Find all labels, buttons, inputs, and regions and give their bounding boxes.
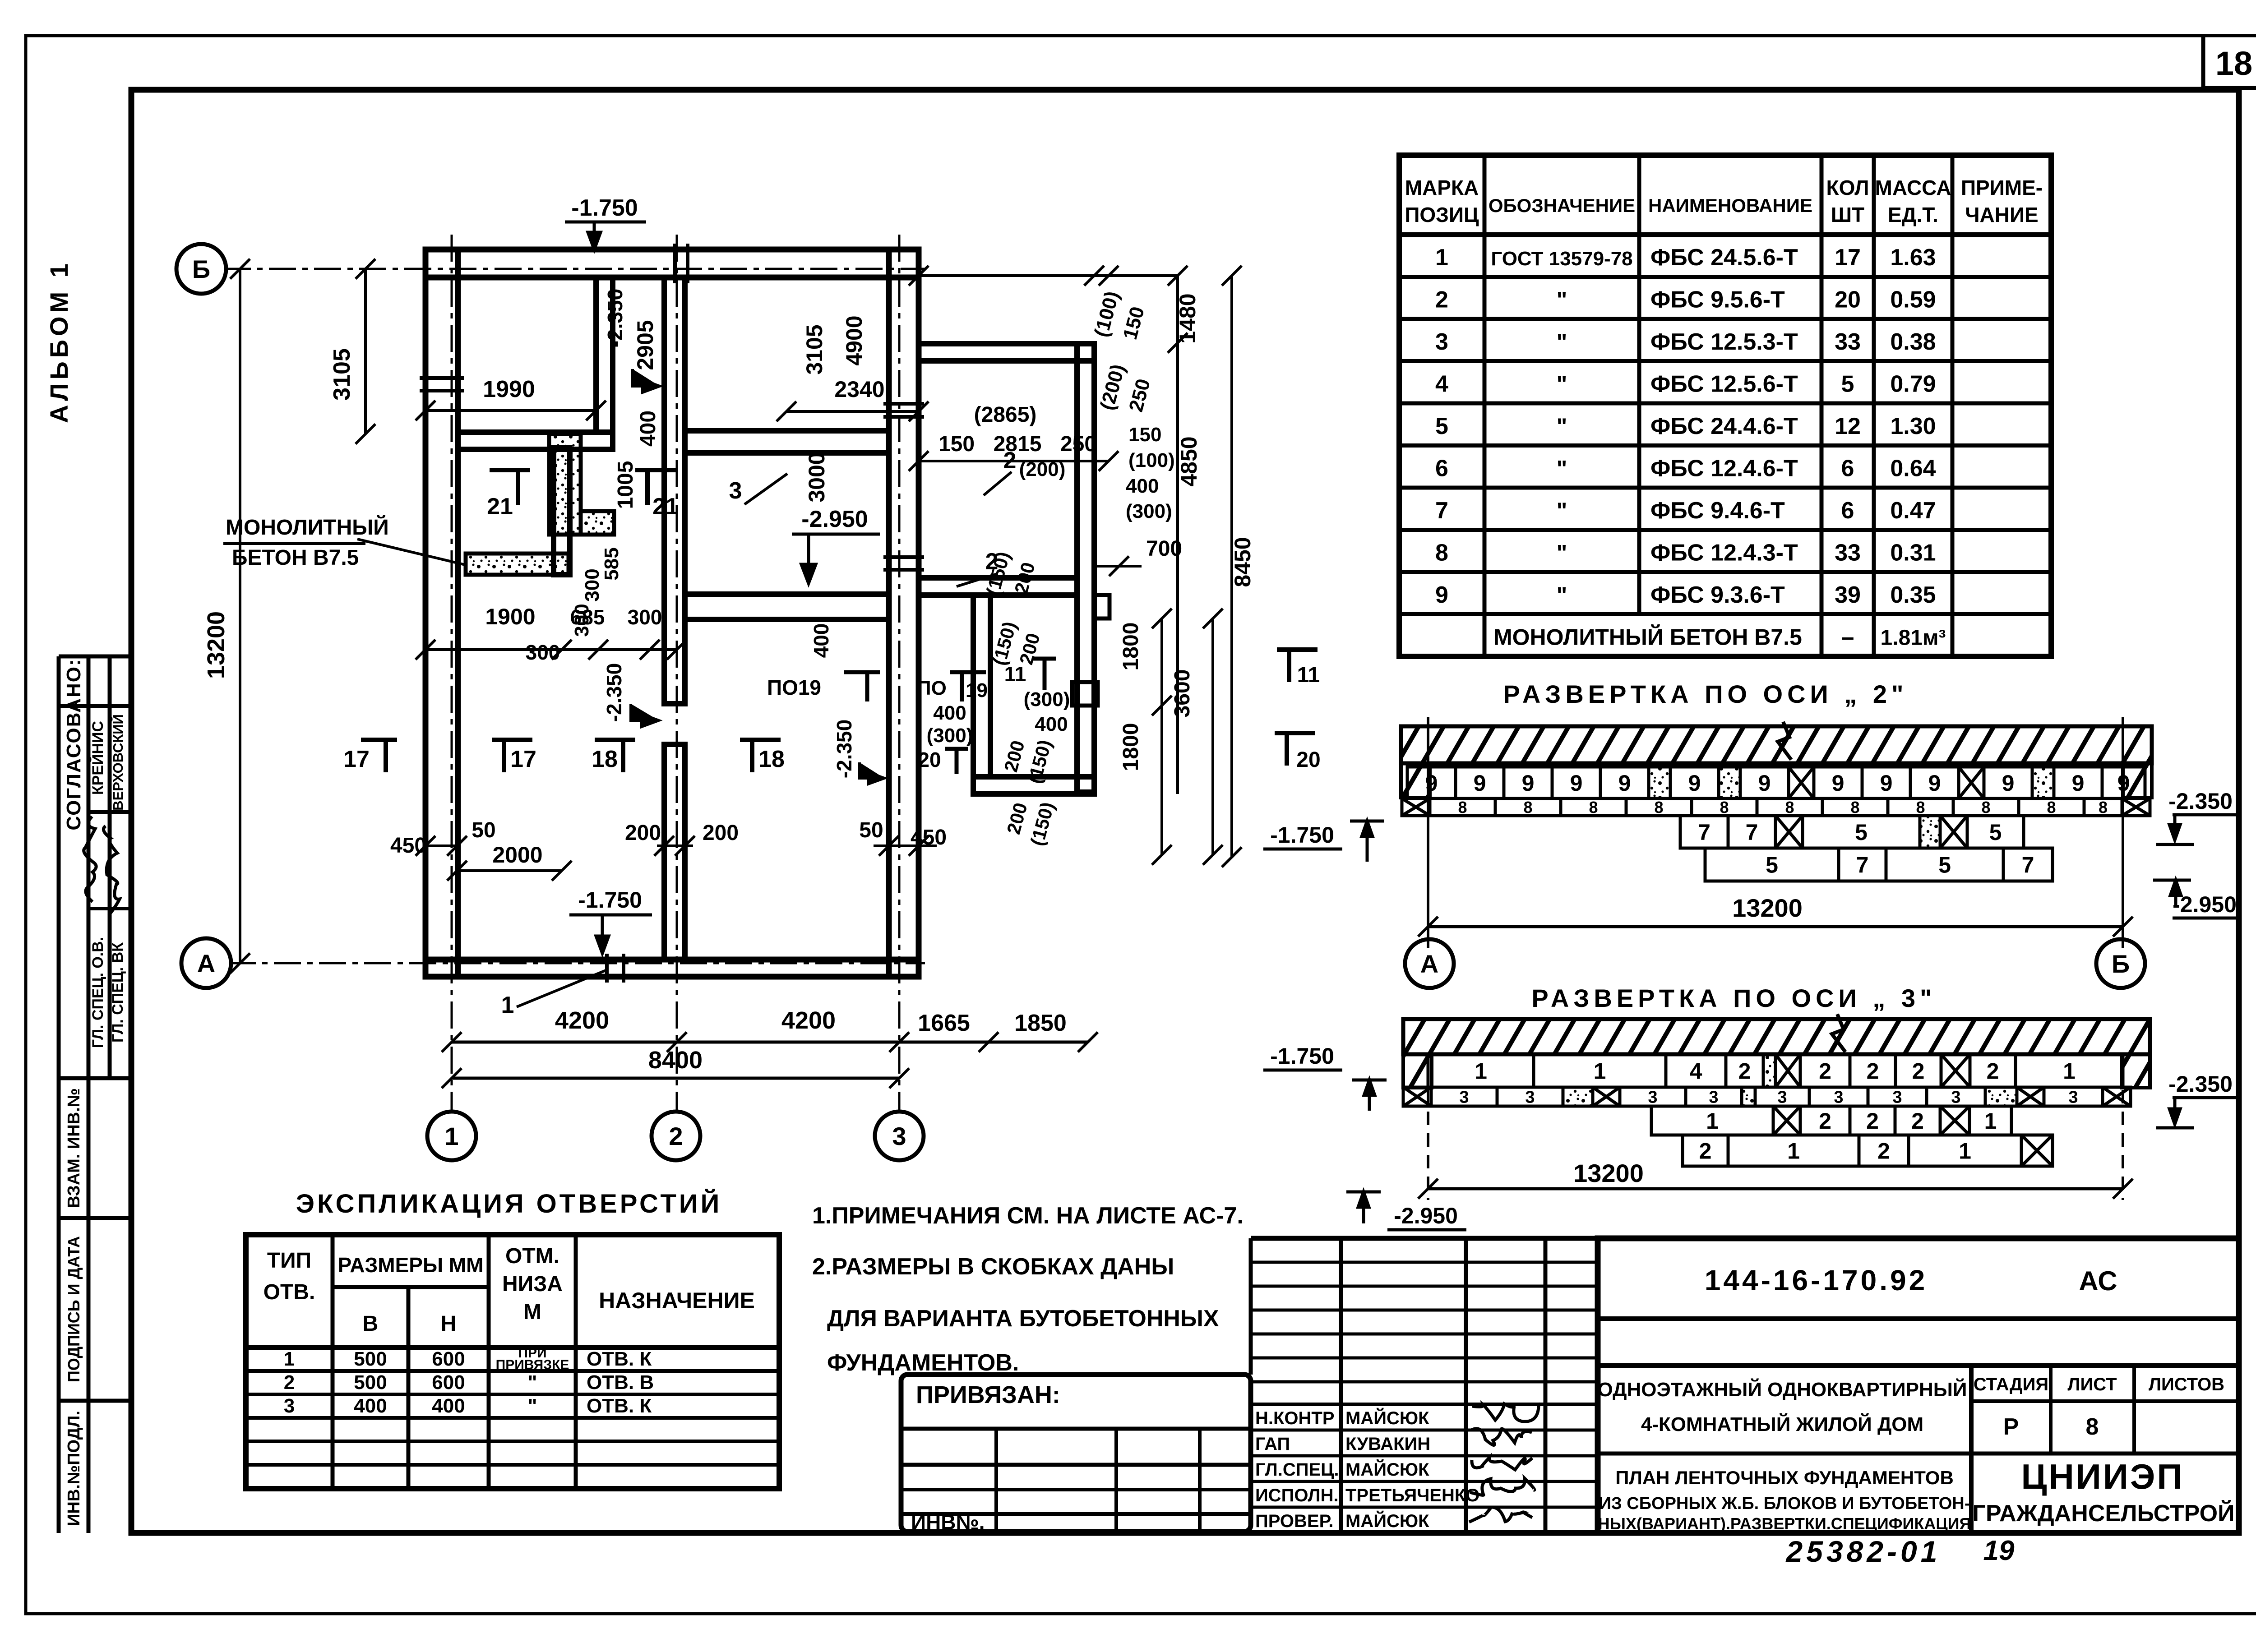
svg-text:9: 9 [1688,771,1701,796]
plan wall middle horizontal 2 [685,594,889,619]
svg-text:6: 6 [1841,498,1854,524]
svg-text:ВЕРХОВСКИЙ: ВЕРХОВСКИЙ [110,714,126,811]
dimension line 1800/3600 [1160,618,1163,855]
svg-text:(200): (200) [1019,458,1066,480]
svg-text:8: 8 [1654,798,1663,817]
svg-text:1665: 1665 [918,1010,970,1036]
svg-text:11: 11 [1004,662,1026,686]
razvertka3 level mark -2.950 bottom left [1346,1192,1381,1223]
svg-text:3105: 3105 [329,348,355,401]
svg-text:8: 8 [1458,798,1467,817]
svg-text:400: 400 [1035,713,1068,735]
svg-text:17: 17 [510,746,536,772]
svg-text:400: 400 [432,1395,465,1417]
plan stipple monolithic A [549,434,581,535]
svg-text:7: 7 [1746,820,1758,845]
section mark 18 left [595,740,635,772]
svg-text:3: 3 [1834,1088,1843,1107]
svg-text:9: 9 [1570,771,1583,796]
svg-text:400: 400 [809,623,833,658]
svg-text:8: 8 [2047,798,2056,817]
svg-text:3600: 3600 [1170,669,1194,718]
svg-text:А: А [197,949,215,978]
svg-text:500: 500 [354,1348,387,1370]
svg-text:600: 600 [432,1348,465,1370]
svg-text:1900: 1900 [485,604,535,629]
axis line A horizontal [229,962,925,964]
svg-text:БЕТОН В7.5: БЕТОН В7.5 [232,546,359,570]
svg-text:ГЛ. СПЕЦ. ВК: ГЛ. СПЕЦ. ВК [109,942,126,1043]
svg-text:2905: 2905 [633,320,658,370]
plan outer wall bottom [425,960,919,977]
svg-text:ЛИСТ: ЛИСТ [2067,1375,2117,1394]
svg-text:ГРАЖДАНСЕЛЬСТРОЙ: ГРАЖДАНСЕЛЬСТРОЙ [1973,1500,2235,1527]
annex interior wall horizontal [919,578,1077,595]
svg-text:ДЛЯ ВАРИАНТА БУТОБЕТОННЫХ: ДЛЯ ВАРИАНТА БУТОБЕТОННЫХ [827,1306,1219,1332]
axis line B horizontal [224,268,925,270]
svg-text:": " [1557,372,1567,397]
svg-text:": " [1557,329,1567,355]
bottom dim row 450 50 etc [425,844,457,847]
razvertka2 axis line A [1427,717,1429,948]
svg-text:-2.950: -2.950 [2173,892,2237,917]
svg-text:3: 3 [1892,1088,1902,1107]
svg-text:1990: 1990 [483,376,535,402]
svg-text:ТИП: ТИП [267,1249,311,1273]
svg-text:ПЛАН ЛЕНТОЧНЫХ ФУНДАМЕНТОВ: ПЛАН ЛЕНТОЧНЫХ ФУНДАМЕНТОВ [1615,1467,1954,1488]
svg-text:1: 1 [1787,1139,1800,1164]
svg-text:1800: 1800 [1119,723,1143,771]
svg-text:-2.950: -2.950 [1394,1203,1458,1228]
svg-text:МОНОЛИТНЫЙ БЕТОН В7.5: МОНОЛИТНЫЙ БЕТОН В7.5 [1493,624,1802,650]
svg-text:9: 9 [1522,771,1535,796]
svg-text:7: 7 [2022,853,2034,878]
svg-text:8: 8 [1916,798,1925,817]
svg-text:ОТМ.: ОТМ. [505,1244,559,1268]
svg-text:ЧАНИЕ: ЧАНИЕ [1965,203,2039,226]
plan interior wall axis2 lower [664,744,685,960]
svg-text:18: 18 [592,746,618,772]
axis circle 3 plan [875,1112,924,1160]
svg-text:ПО: ПО [917,677,947,699]
svg-text:(300): (300) [1126,500,1172,522]
svg-text:8: 8 [1981,798,1990,817]
razvertka2 level mark -2.950 [2153,880,2191,907]
svg-text:НАЗНАЧЕНИЕ: НАЗНАЧЕНИЕ [599,1288,755,1313]
annex interior wall vertical [973,595,990,777]
svg-text:ИНВ.№ПОДЛ.: ИНВ.№ПОДЛ. [65,1411,83,1526]
svg-text:РАЗМЕРЫ ММ: РАЗМЕРЫ ММ [338,1253,484,1277]
annex right wall step [1094,595,1110,618]
svg-text:3: 3 [2068,1088,2078,1107]
privyazan grid [901,1427,1251,1431]
svg-text:1800: 1800 [1119,623,1143,671]
svg-text:-2.350: -2.350 [603,289,627,347]
svg-text:НАИМЕНОВАНИЕ: НАИМЕНОВАНИЕ [1648,195,1812,216]
title block centre grid [1249,1238,1253,1375]
svg-text:33: 33 [1835,329,1861,355]
svg-text:ФБС 9.4.6-Т: ФБС 9.4.6-Т [1650,498,1785,524]
svg-text:2000: 2000 [492,842,542,868]
plan outer wall left [425,249,458,977]
plan wall middle horizontal 1 [685,431,889,453]
svg-text:Н: Н [441,1312,457,1336]
svg-text:200: 200 [703,821,739,845]
explication table grid [246,1235,779,1489]
svg-text:5: 5 [1766,853,1778,878]
svg-text:4: 4 [1435,371,1448,397]
svg-text:ПРИВЯЗАН:: ПРИВЯЗАН: [916,1381,1060,1408]
svg-text:ПРОВЕР.: ПРОВЕР. [1255,1511,1333,1531]
svg-text:2: 2 [1911,1108,1924,1134]
svg-text:8: 8 [2086,1414,2099,1440]
svg-text:3105: 3105 [802,324,827,374]
svg-text:2: 2 [1738,1059,1751,1084]
svg-text:1.ПРИМЕЧАНИЯ СМ. НА ЛИСТЕ АС-7: 1.ПРИМЕЧАНИЯ СМ. НА ЛИСТЕ АС-7. [812,1203,1244,1229]
section mark 17 in room [492,740,532,772]
plan wall right of top-left room [596,277,613,432]
svg-text:13200: 13200 [203,611,230,679]
svg-text:9: 9 [1832,771,1845,796]
svg-text:4850: 4850 [1176,436,1202,486]
opening marks top wall axis2 [673,244,677,283]
svg-text:ШТ: ШТ [1831,203,1864,226]
sheet title box [1598,1452,1971,1456]
svg-text:2815: 2815 [994,432,1042,456]
svg-text:1: 1 [501,992,514,1018]
razvertka3 left hatch end block [1403,1054,1432,1088]
svg-text:600: 600 [432,1371,465,1394]
svg-text:685: 685 [570,605,605,629]
sidebar signature 2 [103,826,120,915]
svg-text:9: 9 [1880,771,1893,796]
svg-text:ПО19: ПО19 [767,676,821,699]
svg-text:39: 39 [1835,582,1861,608]
svg-text:ВЗАМ. ИНВ.№: ВЗАМ. ИНВ.№ [65,1088,83,1208]
svg-text:19: 19 [966,679,988,701]
svg-text:АС: АС [2079,1266,2117,1296]
svg-text:ГЛ.СПЕЦ.: ГЛ.СПЕЦ. [1255,1460,1339,1480]
svg-text:3: 3 [1435,329,1448,355]
sidebar stamp table grid [57,656,61,1533]
svg-text:": " [1557,498,1567,523]
sidebar signature 1 [84,817,96,902]
svg-text:Н.КОНТР: Н.КОНТР [1255,1408,1335,1428]
razvertka2 left hatch end block [1401,763,1430,798]
svg-text:9: 9 [2002,771,2015,796]
svg-text:300: 300 [628,605,662,629]
svg-text:144-16-170.92: 144-16-170.92 [1705,1264,1928,1297]
svg-text:17: 17 [343,746,370,772]
svg-text:-2.350: -2.350 [832,720,856,778]
svg-text:9: 9 [1928,771,1941,796]
dimension 1990 [425,409,596,412]
razvertka2 block row 5-7 bottom [1705,848,1839,881]
svg-text:1: 1 [444,1122,458,1150]
annex bottom wall [973,777,1094,794]
svg-text:ЭКСПЛИКАЦИЯ ОТВЕРСТИЙ: ЭКСПЛИКАЦИЯ ОТВЕРСТИЙ [296,1189,722,1218]
svg-text:8: 8 [1720,798,1729,817]
svg-text:0.79: 0.79 [1890,371,1936,397]
svg-text:3: 3 [1777,1088,1787,1107]
svg-text:": " [1557,456,1567,481]
svg-text:2340: 2340 [834,377,884,402]
opening marks axis3 wall lower [883,555,924,559]
svg-text:6: 6 [1435,456,1448,482]
bottom dimension row 4200 4200 1665 1850 [452,1041,1088,1044]
svg-text:(100): (100) [1128,449,1175,471]
svg-text:500: 500 [354,1371,387,1394]
annex bottom-right step [1072,682,1098,706]
svg-text:0.59: 0.59 [1890,287,1936,313]
svg-text:5: 5 [1435,413,1448,439]
razvertka3 hatched ground strip [1403,1019,2150,1054]
svg-text:КОЛ: КОЛ [1826,176,1869,199]
svg-text:13200: 13200 [1573,1159,1644,1187]
razvertka2 break mark [1778,722,1791,760]
svg-text:7: 7 [1698,820,1710,845]
razvertka3 right hatch end block [2122,1054,2150,1088]
svg-text:3: 3 [892,1122,906,1150]
svg-text:9: 9 [1474,771,1486,796]
svg-text:1850: 1850 [1014,1010,1067,1036]
svg-text:1.30: 1.30 [1890,413,1936,439]
svg-text:2: 2 [1699,1139,1712,1164]
svg-text:ГЛ. СПЕЦ. О.В.: ГЛ. СПЕЦ. О.В. [89,937,106,1048]
svg-text:ФБС 12.4.6-Т: ФБС 12.4.6-Т [1650,456,1798,482]
dimension line right vertical 8450 [1230,276,1233,857]
opening marks bottom wall [605,954,609,983]
razvertka2 axis line B [2122,717,2124,948]
svg-text:3: 3 [1951,1088,1960,1107]
dimension line right vertical 1480 [1176,276,1179,343]
svg-text:200: 200 [625,821,661,845]
svg-text:4200: 4200 [781,1007,836,1034]
svg-text:3000: 3000 [804,452,829,502]
svg-text:9: 9 [1758,771,1771,796]
plan wall under top-left room [458,432,613,449]
svg-text:20: 20 [1835,287,1861,313]
section mark 21 left [490,470,530,505]
svg-text:400: 400 [933,702,966,724]
dimension 3105 vertical left [364,269,367,434]
svg-text:1: 1 [284,1348,295,1370]
svg-text:1: 1 [1984,1108,1997,1134]
svg-text:1005: 1005 [614,461,638,509]
svg-text:50: 50 [859,818,883,842]
svg-text:18: 18 [758,746,785,772]
svg-text:300: 300 [526,641,560,664]
svg-text:0.47: 0.47 [1890,498,1936,524]
stadia list listov header [1971,1399,2239,1403]
svg-text:ОТВ.: ОТВ. [264,1280,315,1304]
svg-text:4200: 4200 [555,1007,609,1034]
svg-text:8450: 8450 [1230,537,1255,587]
axis circle B [2096,939,2145,988]
razvertka3 block row 3 [1403,1087,1431,1106]
razvertka3 block row 1 [1428,1054,1534,1087]
svg-text:1: 1 [1435,245,1448,271]
svg-text:2: 2 [1912,1059,1925,1084]
svg-text:": " [528,1395,537,1417]
specification table grid [1399,155,2051,656]
svg-text:4: 4 [1690,1059,1702,1084]
svg-text:(2865): (2865) [974,403,1037,427]
svg-text:18: 18 [2215,45,2252,82]
svg-text:ФБС 12.4.3-Т: ФБС 12.4.3-Т [1650,540,1798,566]
axis circle A plan [181,938,231,988]
axis line 2 vertical [676,235,678,1113]
section mark 18 in room [740,740,781,772]
svg-text:1.81м³: 1.81м³ [1881,626,1946,650]
svg-text:": " [1557,540,1567,566]
svg-text:МАЙСЮК: МАЙСЮК [1345,1459,1429,1480]
svg-text:8: 8 [1589,798,1598,817]
svg-text:": " [1557,414,1567,439]
razvertka3 break mark [1832,1014,1845,1052]
svg-text:400: 400 [636,411,660,447]
svg-text:3: 3 [1648,1088,1657,1107]
svg-text:150: 150 [1128,424,1161,446]
svg-text:МОНОЛИТНЫЙ: МОНОЛИТНЫЙ [226,515,389,540]
svg-text:1: 1 [1475,1059,1487,1084]
svg-text:2: 2 [1877,1139,1890,1164]
svg-text:2: 2 [1987,1059,1999,1084]
svg-text:-1.750: -1.750 [571,195,638,221]
svg-text:21: 21 [652,494,679,520]
svg-text:20: 20 [918,748,941,771]
svg-text:2: 2 [1866,1108,1879,1134]
svg-text:11: 11 [1297,663,1320,687]
svg-text:25382-01: 25382-01 [1785,1535,1941,1568]
svg-text:450: 450 [390,834,426,858]
svg-text:2: 2 [284,1371,295,1394]
svg-text:(300): (300) [1024,688,1070,711]
svg-text:ТРЕТЬЯЧЕНКО: ТРЕТЬЯЧЕНКО [1345,1486,1479,1505]
svg-text:-1.750: -1.750 [1270,822,1334,848]
svg-text:ОТВ. К: ОТВ. К [587,1395,652,1417]
svg-text:6: 6 [1841,456,1854,482]
svg-text:В: В [363,1312,379,1336]
axis line 3 vertical [898,235,901,1113]
dimension 2000 [457,869,562,872]
svg-text:А: А [1420,950,1438,978]
axis circle 1 plan [427,1112,476,1160]
svg-text:8: 8 [2099,798,2108,817]
svg-text:8: 8 [1785,798,1794,817]
svg-text:150: 150 [938,432,975,456]
svg-text:ФБС 12.5.3-Т: ФБС 12.5.3-Т [1650,329,1798,355]
annex top wall [919,344,1094,361]
section mark 21 right [635,470,676,505]
svg-text:-2.350: -2.350 [2168,1071,2233,1097]
svg-text:МАЙСЮК: МАЙСЮК [1345,1510,1429,1531]
svg-text:ОДНОЭТАЖНЫЙ ОДНОКВАРТИРНЫЙ: ОДНОЭТАЖНЫЙ ОДНОКВАРТИРНЫЙ [1598,1378,1967,1401]
svg-text:5: 5 [1855,820,1868,845]
razvertka3 axis lines [1427,1090,1429,1200]
svg-text:ИЗ СБОРНЫХ Ж.Б. БЛОКОВ И БУТОБ: ИЗ СБОРНЫХ Ж.Б. БЛОКОВ И БУТОБЕТОН- [1599,1494,1970,1513]
svg-text:ИСПОЛН.: ИСПОЛН. [1255,1486,1339,1505]
svg-text:-1.750: -1.750 [1270,1043,1334,1069]
svg-text:3: 3 [1459,1088,1469,1107]
svg-text:0.31: 0.31 [1890,540,1936,566]
svg-text:50: 50 [472,818,495,842]
razvertka3 block row bottom [1683,1135,1728,1166]
svg-text:ИНВ№.: ИНВ№. [911,1510,985,1534]
title block outer [1598,1238,2239,1533]
svg-text:ПРИМЕ-: ПРИМЕ- [1961,176,2043,199]
svg-text:400: 400 [354,1395,387,1417]
page number box 18 [2201,36,2205,88]
svg-text:0.64: 0.64 [1890,456,1936,482]
svg-text:Р: Р [2003,1414,2019,1440]
svg-text:–: – [1841,624,1854,651]
plan stipple monolithic B [581,511,614,535]
razvertka2 block row 9 [1407,767,1456,798]
plan interior wall axis2 upper [664,277,685,704]
svg-text:": " [528,1371,537,1394]
svg-text:700: 700 [1146,537,1182,561]
svg-text:ОТВ. В: ОТВ. В [587,1371,654,1394]
svg-text:ПОЗИЦ: ПОЗИЦ [1405,203,1479,226]
svg-text:ЦНИИЭП: ЦНИИЭП [2021,1457,2184,1496]
svg-text:-2.950: -2.950 [801,506,868,532]
svg-text:300: 300 [581,568,603,601]
svg-text:КУВАКИН: КУВАКИН [1345,1434,1430,1454]
plan wall under mid-left room stipple C [466,554,569,575]
svg-text:7: 7 [1435,498,1448,524]
svg-text:9: 9 [1618,771,1631,796]
annex right wall [1077,344,1094,792]
svg-text:5: 5 [1938,853,1951,878]
section mark T11 [1277,650,1318,682]
svg-text:МАРКА: МАРКА [1405,176,1479,199]
section mark T20 [1275,733,1315,766]
svg-text:НЫХ(ВАРИАНТ).РАЗВЕРТКИ.СПЕЦИФИ: НЫХ(ВАРИАНТ).РАЗВЕРТКИ.СПЕЦИФИКАЦИЯ [1598,1514,1971,1533]
svg-text:2: 2 [1435,287,1448,313]
svg-text:(300): (300) [927,724,973,747]
svg-text:СТАДИЯ: СТАДИЯ [1974,1375,2048,1394]
svg-text:1: 1 [1959,1139,1971,1164]
plan outer wall right axis3 [889,249,919,977]
svg-text:": " [1557,287,1567,313]
svg-text:ОТВ. К: ОТВ. К [587,1348,652,1370]
svg-text:0.35: 0.35 [1890,582,1936,608]
razvertka3 dimension 13200 [1428,1187,2123,1191]
razvertka2 block row 7-5 [1680,816,1728,848]
svg-text:5: 5 [1989,820,2002,845]
svg-text:РАЗВЕРТКА ПО ОСИ „ 3": РАЗВЕРТКА ПО ОСИ „ 3" [1531,984,1936,1012]
svg-text:4900: 4900 [841,315,867,365]
svg-text:М: М [523,1300,541,1324]
svg-text:ГАП: ГАП [1255,1434,1290,1454]
svg-text:Б: Б [192,255,210,283]
svg-text:ГОСТ 13579-78: ГОСТ 13579-78 [1491,248,1632,270]
svg-text:2: 2 [1819,1108,1831,1134]
svg-text:8: 8 [1435,540,1448,566]
svg-text:СОГЛАСОВАНО:: СОГЛАСОВАНО: [63,658,85,830]
svg-text:8: 8 [1523,798,1532,817]
svg-text:8400: 8400 [648,1047,703,1074]
svg-text:17: 17 [1835,245,1861,271]
razvertka2 right hatch end block [2123,763,2152,798]
svg-text:20: 20 [1296,748,1320,772]
svg-text:3: 3 [1709,1088,1718,1107]
svg-text:12: 12 [1835,413,1861,439]
svg-text:Б: Б [2112,950,2130,978]
section mark 17 far left [361,740,397,772]
svg-text:ФБС 24.5.6-Т: ФБС 24.5.6-Т [1650,245,1798,271]
